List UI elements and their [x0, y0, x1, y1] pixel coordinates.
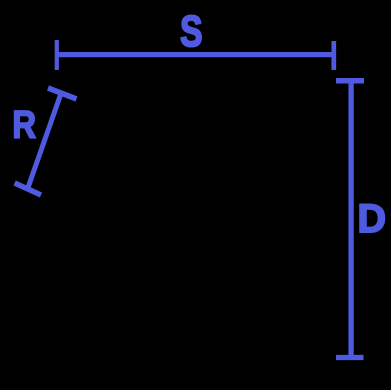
- svg-text:D: D: [358, 197, 387, 241]
- svg-text:R: R: [12, 102, 36, 146]
- svg-text:S: S: [180, 8, 202, 56]
